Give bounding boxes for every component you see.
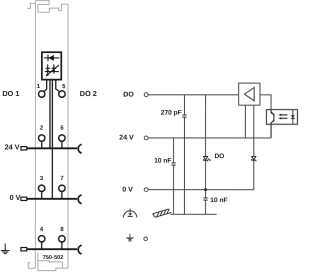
svg-text:DO 2: DO 2 [80, 89, 97, 98]
svg-text:10 nF: 10 nF [154, 158, 171, 165]
svg-text:DO 1: DO 1 [2, 89, 19, 98]
svg-text:750-502: 750-502 [42, 255, 63, 261]
svg-text:24 V: 24 V [119, 135, 134, 142]
svg-text:0 V: 0 V [10, 193, 21, 202]
svg-text:0 V: 0 V [122, 187, 133, 194]
svg-text:10 nF: 10 nF [210, 197, 227, 204]
svg-text:270 pF: 270 pF [161, 110, 182, 117]
svg-text:24 V: 24 V [5, 143, 20, 152]
svg-text:DO: DO [123, 92, 134, 99]
svg-text:DO: DO [214, 153, 224, 160]
